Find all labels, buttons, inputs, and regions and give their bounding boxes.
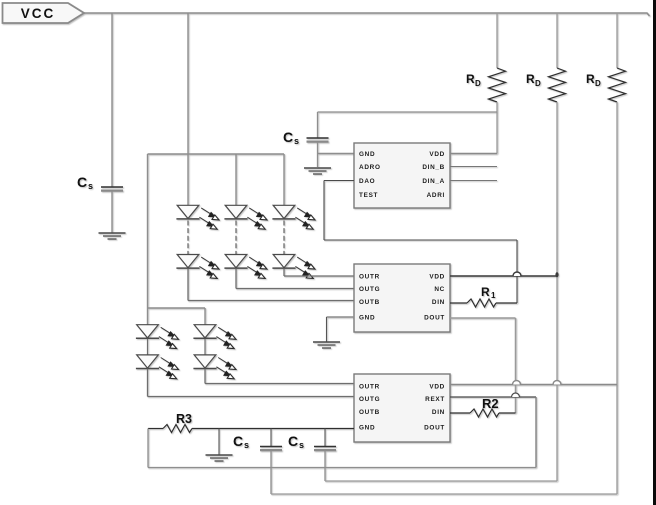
svg-text:DIN_B: DIN_B <box>422 164 445 171</box>
wire: RD1 top lead x497 <box>496 13 498 68</box>
svg-text:OUTR: OUTR <box>359 384 380 391</box>
wire: Cs4 bottom lead to rail y481 <box>324 451 326 482</box>
svg-text:R2: R2 <box>482 396 499 411</box>
svg-text:R: R <box>586 72 595 86</box>
wire: group2 col1 top lead <box>147 308 149 325</box>
svg-text:GND: GND <box>359 151 375 158</box>
capacitor Cs (left bypass) <box>101 187 123 191</box>
svg-text:NC: NC <box>434 286 445 293</box>
ground (left bypass cap) <box>99 233 126 239</box>
svg-text:TEST: TEST <box>359 192 378 199</box>
wire: U3 VDD to RD3 leg y384 <box>450 384 617 386</box>
wire: Cs3 bottom lead to rail y494 <box>270 451 272 495</box>
svg-text:DOUT: DOUT <box>424 315 445 322</box>
resistor R3 lead left <box>148 428 163 430</box>
svg-text:VDD: VDD <box>429 151 445 158</box>
wire: U3 REXT right <box>450 396 536 398</box>
svg-text:R3: R3 <box>176 412 192 426</box>
wire: U1 GND pin wire <box>318 153 355 155</box>
svg-text:OUTR: OUTR <box>359 274 380 281</box>
svg-text:REXT: REXT <box>425 396 445 403</box>
wire: U2 DIN lead to R1 <box>450 302 467 304</box>
wire: U1 DIN_A stub <box>450 180 497 182</box>
wire: group2 col2 cathode down <box>204 369 206 384</box>
resistor R1 <box>467 299 496 307</box>
IC U1 body <box>354 143 450 208</box>
capacitor Cs (U3 gnd a) <box>260 447 282 451</box>
svg-text:s: s <box>299 440 304 450</box>
svg-text:D: D <box>535 79 541 88</box>
svg-text:VCC: VCC <box>21 6 56 21</box>
LED D8 (group2 row1 col2) <box>193 325 236 349</box>
wire: col2 cathode down <box>235 269 237 289</box>
wire: R1 right lead to vertical <box>496 302 517 304</box>
wire: DAO vertical x324 <box>323 181 325 241</box>
resistor R3 <box>163 425 192 433</box>
wire: VCC top rail y13 <box>84 13 650 16</box>
wire: drop to LED column1 x188 <box>187 13 189 206</box>
svg-text:s: s <box>294 136 299 146</box>
wire: bottom rail y494 <box>271 493 617 495</box>
wire: U1 DIN_B stub <box>450 166 497 168</box>
wire: U1 VDD pin to RD1 <box>450 153 497 155</box>
wire: DOUT vertical x515 down to R2 <box>515 318 517 413</box>
wire hop: VDD3 over x516 <box>513 381 521 385</box>
wire: group2 col1 to U3 OUTG <box>148 396 355 398</box>
wire hop: VDD2 over x517 <box>513 272 521 276</box>
wire: col1 to U2 OUTB <box>188 300 354 302</box>
LED D7 (group2 row1 col1) <box>136 325 179 349</box>
wire: R3 to U3 GND pin y427 <box>192 428 354 430</box>
ground (R3 / U3 GND) <box>206 455 233 461</box>
wire: U2 VDD to RD2 leg <box>450 275 557 277</box>
wire: cap bottom lead to U1 GND <box>317 142 319 167</box>
svg-text:DOUT: DOUT <box>424 425 445 432</box>
wire: U3 DIN lead to R2 <box>450 412 470 414</box>
wire: col3 to U2 OUTR <box>284 275 354 277</box>
wire: dashed link col3 <box>283 221 285 255</box>
resistor RD3 <box>609 68 626 102</box>
svg-text:R: R <box>466 72 475 86</box>
wire: horizontal y112 from decoupling cap to RD1 leg <box>318 111 498 113</box>
wire: RD3 top lead x617 <box>616 13 618 68</box>
VCC power flag <box>3 3 85 23</box>
svg-text:C: C <box>77 174 87 190</box>
wire hop: VDD3 over x557 <box>553 381 561 385</box>
wire: dashed link col2 <box>235 221 237 255</box>
svg-text:OUTG: OUTG <box>359 286 380 293</box>
wire: RD1 bottom lead to VDD of U1 <box>496 102 498 154</box>
wire: cap Cs3 top lead x271 <box>270 429 272 447</box>
wire: U1 DAO pin left <box>324 180 354 182</box>
LED D2 (group1 row1 col2) <box>224 205 267 229</box>
wire: group2 col1 link <box>147 339 149 355</box>
svg-text:1: 1 <box>491 291 496 300</box>
wire: left cap bottom lead <box>111 191 113 233</box>
ground (below U1 cap) <box>304 168 331 174</box>
wire: cap Cs4 top lead x325 <box>324 429 326 447</box>
wire: R3 left vertical down x148 <box>147 429 149 468</box>
svg-text:s: s <box>88 181 93 191</box>
svg-text:ADRO: ADRO <box>359 164 381 171</box>
resistor RD2 <box>549 68 566 102</box>
LED D9 (group2 row2 col1) <box>136 355 179 379</box>
frame: right border <box>653 0 656 505</box>
wire: REXT vertical x536 down <box>535 397 537 468</box>
wire: LED feed rail y154 <box>148 153 285 155</box>
wire: col1 cathode down <box>187 269 189 301</box>
wire: vertical x517 from y240 to R1 <box>516 240 518 303</box>
svg-text:DIN: DIN <box>432 409 445 416</box>
wire: RD3 bottom lead down far right <box>616 102 618 494</box>
svg-text:D: D <box>595 79 601 88</box>
LED D4 (group1 row2 col1) <box>176 255 219 279</box>
svg-text:OUTB: OUTB <box>359 299 380 306</box>
wire hop: REXT over x516 <box>512 393 520 397</box>
LED D6 (group1 row2 col3) <box>272 255 315 279</box>
wire: RD2 bottom lead down right side <box>556 102 558 481</box>
svg-text:s: s <box>244 440 249 450</box>
wire: group2 col2 link <box>204 339 206 355</box>
svg-text:DAO: DAO <box>359 178 375 185</box>
svg-text:C: C <box>288 433 298 449</box>
svg-text:R: R <box>526 72 535 86</box>
svg-text:GND: GND <box>359 425 375 432</box>
wire: dashed link col1 <box>187 221 189 255</box>
wire: U2 DOUT right <box>450 317 516 319</box>
wire: cap Cs2 top lead x317 <box>317 112 319 138</box>
svg-text:DIN: DIN <box>432 299 445 306</box>
wire: U2 GND pin left <box>327 316 355 318</box>
LED D1 (group1 row1 col1) <box>176 205 219 229</box>
LED D10 (group2 row2 col2) <box>193 355 236 379</box>
svg-text:OUTG: OUTG <box>359 396 380 403</box>
wire: R2 right lead <box>499 412 516 414</box>
IC U3 body <box>354 374 450 442</box>
node: junction U2 VDD / RD2 <box>555 272 558 277</box>
wire: col3 cathode down <box>283 269 285 277</box>
wire: LED group feed left vertical x147 <box>147 154 149 308</box>
svg-text:R: R <box>481 285 490 299</box>
IC U2 body <box>354 264 450 332</box>
resistor RD1 <box>489 68 506 102</box>
wire: RD2 top lead x557 <box>556 13 558 68</box>
wire: col2 to U2 OUTG <box>236 288 354 290</box>
svg-text:C: C <box>283 129 293 145</box>
svg-text:OUTB: OUTB <box>359 409 380 416</box>
wire: DAO horizontal y240 to R1 branch <box>324 239 517 241</box>
svg-text:VDD: VDD <box>429 384 445 391</box>
svg-text:C: C <box>233 433 243 449</box>
wire: bottom rail y481 <box>325 480 557 482</box>
capacitor Cs (U3 gnd b) <box>314 447 336 451</box>
wire: ground tap x219 <box>218 429 220 456</box>
LED D3 (group1 row1 col3) <box>272 205 315 229</box>
ground (U2) <box>313 342 340 348</box>
wire: U2 GND drop <box>326 317 328 342</box>
svg-text:D: D <box>475 79 481 88</box>
svg-text:ADRI: ADRI <box>427 192 445 199</box>
wire: LED column2 top lead <box>235 154 237 206</box>
wire: group2 feed horizontal y308 <box>148 307 206 309</box>
wire: group2 col2 top lead <box>204 308 206 325</box>
svg-text:VDD: VDD <box>429 274 445 281</box>
resistor R2 <box>470 409 499 417</box>
wire: drop to left bypass cap Cs x112 <box>111 13 113 187</box>
wire: group2 col2 to U3 OUTR <box>205 383 354 385</box>
LED D5 (group1 row2 col2) <box>224 255 267 279</box>
wire: bottom rail y467 <box>148 467 536 469</box>
capacitor Cs (U1 decoupling) <box>307 138 329 142</box>
wire: group2 col1 cathode down <box>147 369 149 397</box>
wire: LED column3 top lead <box>283 154 285 206</box>
svg-text:DIN_A: DIN_A <box>422 178 445 185</box>
svg-text:GND: GND <box>359 315 375 322</box>
